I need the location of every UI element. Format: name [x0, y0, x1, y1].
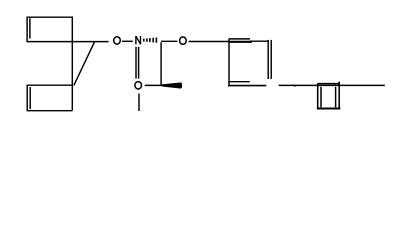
double bond N=O3 line 2 [138, 47, 140, 79]
cyclobutene inner double line left [320, 87, 322, 108]
bond C1 to C2 vertical [160, 42, 162, 85]
cyclobutene square right edge [338, 82, 340, 110]
benzene right edge double line 2 [270, 40, 272, 79]
ring: bicyclic top square top edge [27, 16, 73, 18]
benzene right edge double line 1 [267, 40, 269, 79]
ring: bicyclic bottom square left edge [26, 85, 28, 111]
bond C1 to O2 [161, 40, 177, 42]
benzene top inner double-bond line [229, 38, 251, 40]
wire: chain bond through to right end [279, 84, 385, 86]
bond: long horizontal from quaternary C to O1 [27, 41, 109, 43]
benzene left edge [228, 40, 230, 87]
atom N [136, 36, 141, 44]
benzene top edge right part [250, 40, 269, 42]
cyclobutene square left edge [317, 84, 319, 110]
bond O2 to benzene ring [189, 41, 252, 43]
solid wedge bond C2 methyl [162, 83, 182, 89]
double bond inner line, top square [29, 18, 31, 38]
bond O3 to C2 [145, 84, 162, 86]
cyclobutene square top edge [317, 83, 339, 85]
benzene bottom edge [228, 85, 266, 87]
ring: bicyclic top square left edge [26, 17, 28, 42]
double bond inner line, bottom square [29, 87, 31, 109]
bond: diagonal bridge [74, 42, 95, 86]
cyclobutene inner double line right [335, 87, 337, 108]
atom O3 [135, 82, 142, 89]
double bond N=O3 line 1 [135, 47, 137, 79]
benzene bottom inner double-bond line [229, 81, 250, 83]
ring: bicyclic bottom square top edge [27, 84, 73, 86]
benzene top edge left part [229, 41, 252, 43]
ring: bicyclic bottom square bottom edge [27, 110, 73, 112]
atom O2 [180, 37, 187, 44]
node: chain junction dot [294, 85, 296, 87]
wire: shared right vertical edge of bicyclic [71, 17, 73, 111]
atom O1 [114, 37, 121, 44]
hashed wedge bond N to C1 [143, 38, 157, 43]
cyclobutene square bottom edge [317, 107, 340, 109]
bond O3 methyl down [138, 94, 140, 112]
bond O1 to N [122, 40, 133, 42]
